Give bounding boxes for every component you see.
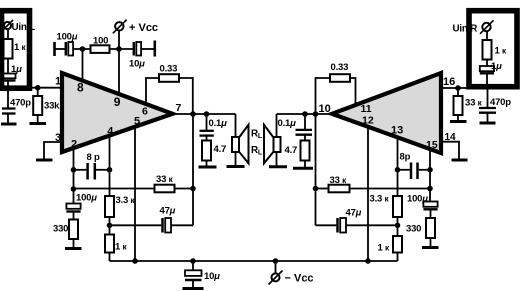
- svg-text:100μ: 100μ: [407, 194, 428, 205]
- svg-text:4.7: 4.7: [214, 144, 227, 155]
- svg-text:1μ: 1μ: [11, 64, 22, 75]
- svg-text:330: 330: [406, 224, 421, 235]
- svg-text:0.1μ: 0.1μ: [209, 118, 228, 129]
- svg-text:0.33: 0.33: [160, 64, 178, 75]
- svg-text:1μ: 1μ: [491, 61, 502, 72]
- svg-text:2: 2: [71, 139, 77, 151]
- svg-text:47μ: 47μ: [346, 208, 362, 219]
- svg-text:1: 1: [55, 76, 61, 88]
- svg-text:7: 7: [176, 102, 182, 114]
- svg-text:0.33: 0.33: [331, 62, 349, 73]
- svg-text:5: 5: [134, 116, 140, 128]
- svg-text:4.7: 4.7: [285, 145, 298, 156]
- svg-text:33k: 33k: [44, 101, 60, 112]
- svg-text:1 к: 1 к: [14, 42, 27, 53]
- svg-text:16: 16: [443, 76, 455, 88]
- svg-text:9: 9: [114, 95, 121, 109]
- svg-text:3.3 к: 3.3 к: [370, 194, 390, 205]
- svg-text:1 к: 1 к: [115, 242, 128, 253]
- svg-text:47μ: 47μ: [160, 206, 176, 217]
- svg-text:33 к: 33 к: [156, 174, 174, 185]
- svg-text:3.3 к: 3.3 к: [116, 195, 136, 206]
- svg-text:100: 100: [93, 36, 108, 47]
- svg-text:0.1μ: 0.1μ: [278, 118, 297, 129]
- svg-text:3: 3: [55, 132, 61, 144]
- svg-text:10μ: 10μ: [204, 271, 220, 282]
- svg-text:10μ: 10μ: [129, 59, 145, 70]
- svg-text:+ Vcc: + Vcc: [129, 22, 158, 34]
- svg-text:8p: 8p: [400, 152, 411, 163]
- svg-text:1 к: 1 к: [495, 46, 508, 57]
- svg-text:8 p: 8 p: [87, 152, 101, 163]
- svg-text:6: 6: [142, 105, 148, 117]
- svg-text:470p: 470p: [10, 98, 31, 109]
- svg-text:4: 4: [107, 126, 114, 138]
- svg-text:Uin R: Uin R: [453, 24, 478, 35]
- svg-text:14: 14: [445, 132, 457, 143]
- svg-text:10: 10: [319, 103, 331, 115]
- svg-text:100μ: 100μ: [76, 193, 97, 204]
- svg-text:100μ: 100μ: [57, 32, 78, 43]
- svg-text:8: 8: [77, 81, 84, 95]
- svg-text:− Vcc: − Vcc: [285, 273, 314, 285]
- svg-text:12: 12: [362, 114, 374, 126]
- svg-text:11: 11: [361, 103, 372, 115]
- svg-text:33 к: 33 к: [330, 175, 348, 186]
- svg-text:470p: 470p: [490, 97, 511, 108]
- svg-text:15: 15: [426, 139, 438, 151]
- svg-text:13: 13: [391, 125, 403, 137]
- svg-text:1 к: 1 к: [378, 243, 391, 254]
- svg-text:330: 330: [53, 224, 68, 235]
- svg-text:33 к: 33 к: [465, 98, 483, 109]
- svg-text:Uin L: Uin L: [12, 22, 36, 33]
